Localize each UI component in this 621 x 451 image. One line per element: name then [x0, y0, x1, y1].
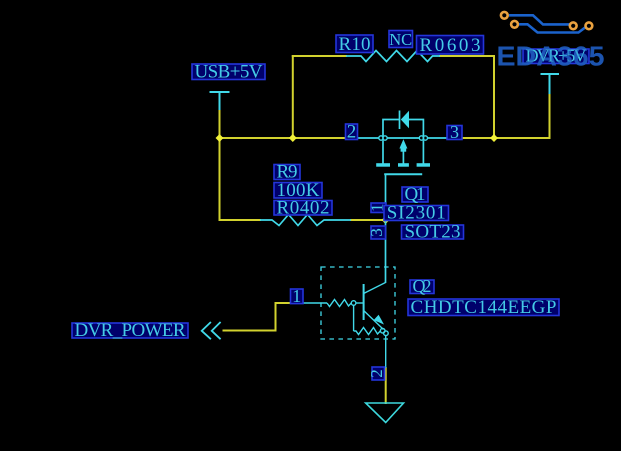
svg-text:SI2301: SI2301: [387, 203, 446, 224]
wire R9 row left: [219, 219, 262, 221]
pin number 1 of Q1 (rotated, gate): [367, 203, 386, 213]
Q2 base resistor: [327, 300, 351, 307]
wire R10 top left: [292, 55, 347, 57]
Q1 body-diode left stub: [383, 120, 399, 137]
EDA365 logo trace upper: [509, 15, 570, 24]
Q1 pin3 lead: [428, 137, 449, 139]
label R9: [274, 162, 300, 183]
junction node USB+5V / R9 branch: [216, 134, 224, 142]
label 100K: [274, 180, 322, 201]
svg-text:SOT23: SOT23: [405, 222, 461, 243]
label DVR_POWER: [72, 320, 188, 341]
EDA365 logo trace lower: [519, 24, 586, 32]
label USB+5V: [192, 62, 265, 83]
resistor R9 body: [260, 215, 351, 226]
label SI2301: [384, 203, 449, 224]
svg-text:R0603: R0603: [420, 35, 481, 56]
wire R10 top right: [439, 55, 495, 57]
svg-text:3: 3: [450, 122, 459, 142]
wire main rail left (USB node to Q1 pin2): [219, 137, 354, 139]
Q2 collector diagonal: [364, 283, 386, 294]
EDA365 logo pad 1: [501, 12, 508, 19]
port chevron DVR_POWER: [202, 322, 221, 339]
label CHDTC144EEGP: [408, 297, 559, 318]
junction node Q1 gate / R9: [382, 216, 390, 224]
Q1 pin2 circles: [379, 136, 383, 140]
Q1 channel rail: [387, 137, 419, 139]
Q1 body-diode right stub: [409, 120, 423, 137]
svg-text:R10: R10: [339, 34, 371, 55]
label R0402: [274, 197, 332, 218]
svg-text:CHDTC144EEGP: CHDTC144EEGP: [411, 297, 557, 318]
svg-text:NC: NC: [389, 30, 412, 49]
wire R10 loop right vertical: [493, 55, 495, 138]
Q1 source/drain stubs: [382, 140, 384, 163]
Q2 emitter diagonal: [364, 311, 384, 330]
label DVR+5V: [523, 46, 589, 66]
power port DVR+5V symbol: [541, 74, 560, 94]
Q2 pin2 lead: [385, 336, 387, 369]
junction node R10 loop right: [490, 134, 498, 142]
Q2 base-emitter resistor drop: [353, 305, 355, 331]
wire Q2 pin1 horizontal: [275, 302, 303, 304]
pin number 2 of Q1: [346, 122, 358, 143]
Q1 terminal bars: [376, 163, 390, 167]
wire DVR+5V riser: [549, 93, 551, 139]
Q2 base-emitter resistor: [354, 328, 381, 335]
transistor Q1 MOSFET symbol: [354, 111, 448, 175]
pin number 2 of Q2 (rotated, emitter): [367, 367, 386, 380]
Q2 emitter arrow: [374, 315, 384, 325]
Q2 emitter node circles: [380, 328, 385, 333]
Q2 base link: [356, 302, 364, 304]
ground: [366, 403, 404, 423]
Q2 base bar: [363, 284, 365, 320]
label R10: [336, 34, 373, 55]
power port USB+5V symbol: [210, 92, 230, 110]
label NC: [389, 30, 413, 49]
pin number 3 of Q1: [447, 122, 462, 142]
pin number 3 of Q2 (rotated, collector): [367, 226, 386, 239]
Q1 body-diode cathode bar: [399, 111, 401, 130]
wire Q1 gate lead: [385, 174, 387, 220]
wire Q2 pin3 collector lead: [385, 220, 387, 283]
EDA365 logo pad 2: [511, 21, 518, 28]
svg-text:DVR_POWER: DVR_POWER: [75, 320, 186, 341]
svg-text:Q2: Q2: [413, 276, 432, 296]
label R0603: [417, 35, 484, 56]
svg-text:2: 2: [367, 369, 386, 378]
svg-text:3: 3: [367, 228, 386, 237]
label Q2: [410, 276, 434, 296]
Q2 base node circle: [351, 301, 356, 306]
wire R9 row right to gate node: [350, 219, 386, 221]
Q2 pin1 lead: [302, 302, 327, 304]
svg-text:R0402: R0402: [277, 197, 330, 218]
Q1 pin3 circles: [419, 136, 423, 140]
Q1 body-diode triangle: [401, 111, 409, 129]
label SOT23: [402, 222, 464, 243]
Q1 pin2 lead: [354, 137, 379, 139]
EDA365 logo pad 3: [570, 22, 577, 29]
wire R9 branch vertical: [219, 137, 221, 221]
pin number 1 of Q2: [291, 286, 304, 306]
wire Q2 emitter to ground: [385, 367, 387, 404]
svg-text:USB+5V: USB+5V: [195, 62, 263, 83]
svg-text:DVR+5V: DVR+5V: [526, 46, 587, 66]
transistor Q2 dashed package box: [321, 267, 395, 339]
svg-text:1: 1: [292, 286, 301, 306]
label DVR+5V text overlay: [526, 46, 587, 66]
resistor R10 body: [346, 51, 440, 62]
transistor Q2 internals: [302, 283, 388, 369]
Q1 gate bar: [384, 173, 422, 175]
junction node R10 loop left: [289, 134, 297, 142]
EDA365 logo pad 4: [586, 22, 593, 29]
wire main rail right (Q1 pin3 to DVR+5V): [446, 137, 551, 139]
Q1 substrate arrow: [399, 139, 407, 148]
EDA365 logo wordmark: [497, 41, 605, 72]
wire DVR_POWER horizontal: [223, 330, 277, 332]
wire R10 loop left vertical: [292, 55, 294, 138]
label Q1: [402, 184, 428, 205]
wire USB+5V stub to main rail: [219, 109, 221, 138]
svg-text:2: 2: [347, 122, 357, 143]
wire DVR_POWER riser: [275, 302, 277, 332]
